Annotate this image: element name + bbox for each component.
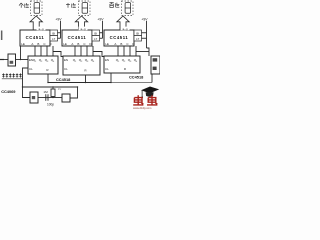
oscillator feedback top wire <box>23 86 78 88</box>
svg-text:+9V: +9V <box>55 18 62 22</box>
U3 pin label a~g <box>121 27 130 31</box>
wire U2 LT to +9V <box>100 37 103 39</box>
counter U4 (CC4518 half 1) <box>28 56 58 74</box>
wire BCD bit 1 stage 3 <box>117 46 119 56</box>
svg-text:LE: LE <box>105 42 109 46</box>
svg-text:CC4511: CC4511 <box>110 35 129 40</box>
watermark red character 2 <box>147 95 157 105</box>
G1 inner mark <box>10 61 14 64</box>
junction dot at 53,97.5 <box>52 97 53 98</box>
bus arrow a-g to display 2 <box>75 16 87 30</box>
svg-text:BI: BI <box>94 31 97 35</box>
wire BCD bit 3 stage 3 <box>129 46 131 56</box>
stray mark left edge <box>1 31 3 41</box>
decoder U1 CC4511 <box>20 30 50 46</box>
svg-text:1M: 1M <box>43 90 48 94</box>
wire +9V for U3 and reset block <box>146 21 148 48</box>
display LED digit 2 (dashed box) <box>79 1 91 16</box>
wire R pin U6 down <box>110 73 112 83</box>
underline of input label <box>2 78 23 80</box>
junction dot at 46.9,97.5 <box>46 97 47 98</box>
seven-segment digit in display 2 <box>82 3 88 14</box>
wire R pin U4 down <box>47 74 49 83</box>
label 百位 (hundreds digit) <box>110 3 120 8</box>
junction dot at 111,82.5 <box>110 82 111 83</box>
inverter gate G1 (CC4069) <box>8 54 16 66</box>
wire U1 LT to +9V <box>58 37 61 39</box>
svg-text:CL: CL <box>105 67 109 71</box>
seven-segment digit in display 1 <box>34 3 40 14</box>
junction dot at 53,87 <box>52 86 53 87</box>
svg-text:LE: LE <box>21 42 25 46</box>
wire input to gate G1 <box>4 59 8 61</box>
wire +9V for U1 <box>60 21 62 38</box>
svg-text:B: B <box>77 42 79 46</box>
svg-text:BI: BI <box>136 31 139 35</box>
wire G1 output to U4 EN <box>16 59 29 61</box>
wire carry Q4 stage3 to reset block <box>136 51 149 53</box>
junction dot at 85.5,82.5 <box>85 82 86 83</box>
watermark graduation cap icon <box>141 87 159 94</box>
K1 inner mark 2 <box>153 67 157 70</box>
resistor R1 1M <box>52 87 54 89</box>
svg-text:LT: LT <box>136 37 139 41</box>
wire reset bus to reset block <box>151 74 153 83</box>
U2 pin LT <box>92 36 100 42</box>
inverter gate G3 (CC4069) <box>62 94 70 102</box>
svg-text:+9V: +9V <box>97 18 104 22</box>
seven-segment digit in display 3 <box>125 3 131 14</box>
reset bus wire right faint <box>111 82 152 84</box>
reset/carry block K1 <box>151 56 160 74</box>
U1 pin LT <box>50 36 58 42</box>
svg-text:a~g: a~g <box>38 27 43 31</box>
svg-text:CC4511: CC4511 <box>26 35 45 40</box>
svg-text:+9V: +9V <box>141 18 148 22</box>
junction dot at 48,82.5 <box>47 82 48 83</box>
wire U2 BI to +9V <box>100 32 103 34</box>
wire carry Q4 stage1 to EN stage2 <box>53 52 64 57</box>
wire BCD bit 4 stage 1 <box>52 46 54 56</box>
U1 pin label a~g <box>37 27 46 31</box>
svg-text:CC4518: CC4518 <box>129 75 144 80</box>
inverter gate G2 (CC4069) <box>30 92 38 103</box>
wire BCD bit 1 stage 2 <box>74 46 76 56</box>
wire U1 BI to +9V <box>58 32 61 34</box>
wire R pin U5 down <box>85 75 87 83</box>
wire BCD bit 2 stage 1 <box>40 46 42 56</box>
wire +9V down to reset block <box>147 48 150 56</box>
U1 pin BI <box>50 30 58 36</box>
junction dot at 20.5,59.5 <box>20 59 21 60</box>
label 十位 (tens digit) <box>66 3 76 8</box>
U2 pin label a~g <box>79 27 88 31</box>
wire U4 CL to oscillator <box>23 68 31 98</box>
svg-text:BI: BI <box>52 31 55 35</box>
wire U3 LT to +9V <box>142 37 147 39</box>
label 计数脉冲输入 (underlined) <box>2 73 22 77</box>
wire capacitor to G3 input <box>48 97 62 99</box>
display LED digit 1 (dashed box) <box>31 1 43 16</box>
U2 pin BI <box>92 30 100 36</box>
counter U6 (CC4518 half 3) <box>104 56 140 73</box>
wire +9V for U2 <box>102 21 104 38</box>
wire BCD bit 4 stage 2 <box>92 46 94 56</box>
svg-text:a~g: a~g <box>80 27 85 31</box>
wire BCD bit 3 stage 1 <box>46 46 48 56</box>
watermark red character 1 <box>133 95 143 105</box>
wire BCD bit 1 stage 1 <box>34 46 36 56</box>
svg-text:CC4518: CC4518 <box>56 77 71 82</box>
decoder U2 CC4511 <box>62 30 92 46</box>
counter U5 (CC4518 half 2) <box>63 56 100 75</box>
wire carry Q4 stage2 to EN stage3 <box>93 52 105 57</box>
bus arrow a-g to display 3 <box>117 16 129 30</box>
U3 pin BI <box>134 30 142 36</box>
wire G2 out to capacitor <box>38 97 46 99</box>
svg-text:A: A <box>114 42 116 46</box>
svg-text:EN: EN <box>64 58 68 62</box>
decoder U3 CC4511 <box>104 30 134 46</box>
wire U3 BI to +9V <box>142 32 147 34</box>
svg-text:www.dzdiy.com: www.dzdiy.com <box>133 106 152 110</box>
wire G3 output feedback <box>70 87 78 98</box>
svg-text:LE: LE <box>63 42 67 46</box>
reset bus wire <box>48 82 111 84</box>
wire BCD bit 3 stage 2 <box>86 46 88 56</box>
svg-text:4V: 4V <box>58 87 61 91</box>
wire BCD bit 2 stage 2 <box>80 46 82 56</box>
svg-text:CL: CL <box>64 67 68 71</box>
svg-text:CC4069: CC4069 <box>1 89 16 94</box>
wire BCD bit 4 stage 3 <box>135 46 137 56</box>
wire BCD bit 2 stage 3 <box>123 46 125 56</box>
junction dot at 22.5,87 <box>22 86 23 87</box>
svg-text:LT: LT <box>52 37 55 41</box>
svg-text:LT: LT <box>94 37 97 41</box>
svg-text:A: A <box>31 42 33 46</box>
U3 pin LT <box>134 36 142 42</box>
svg-text:CL: CL <box>29 67 33 71</box>
junction dot at 77.5,87 <box>77 86 78 87</box>
svg-text:a~g: a~g <box>122 27 127 31</box>
svg-text:EN: EN <box>105 58 109 62</box>
svg-text:A: A <box>71 42 73 46</box>
K1 inner mark 1 <box>153 58 158 61</box>
capacitor C1 plates <box>45 94 47 101</box>
display LED digit 3 (dashed box) <box>122 1 134 16</box>
svg-text:100p: 100p <box>47 103 54 107</box>
input terminal tick <box>0 59 4 61</box>
svg-text:CC4511: CC4511 <box>68 35 87 40</box>
bus arrow a-g to display 1 <box>30 16 42 30</box>
svg-text:B: B <box>120 42 122 46</box>
svg-text:B: B <box>37 42 39 46</box>
wire U1 LE down to input line <box>20 46 22 60</box>
G2 inner mark <box>32 96 35 99</box>
label 个位 (units digit) <box>19 3 29 8</box>
